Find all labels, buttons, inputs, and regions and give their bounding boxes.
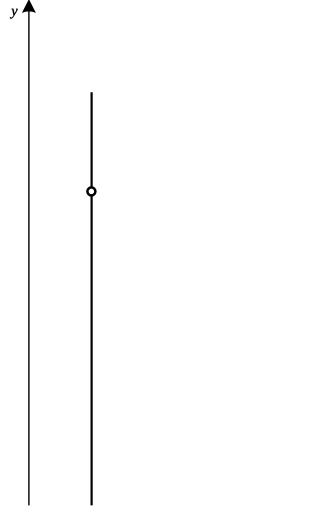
y-axis label "y" xyxy=(10,9,18,19)
y-axis arrowhead xyxy=(22,0,36,13)
y-axis shaft xyxy=(28,2,30,505)
vertical line (right) xyxy=(90,92,92,505)
open circle on vertical line xyxy=(87,187,95,195)
